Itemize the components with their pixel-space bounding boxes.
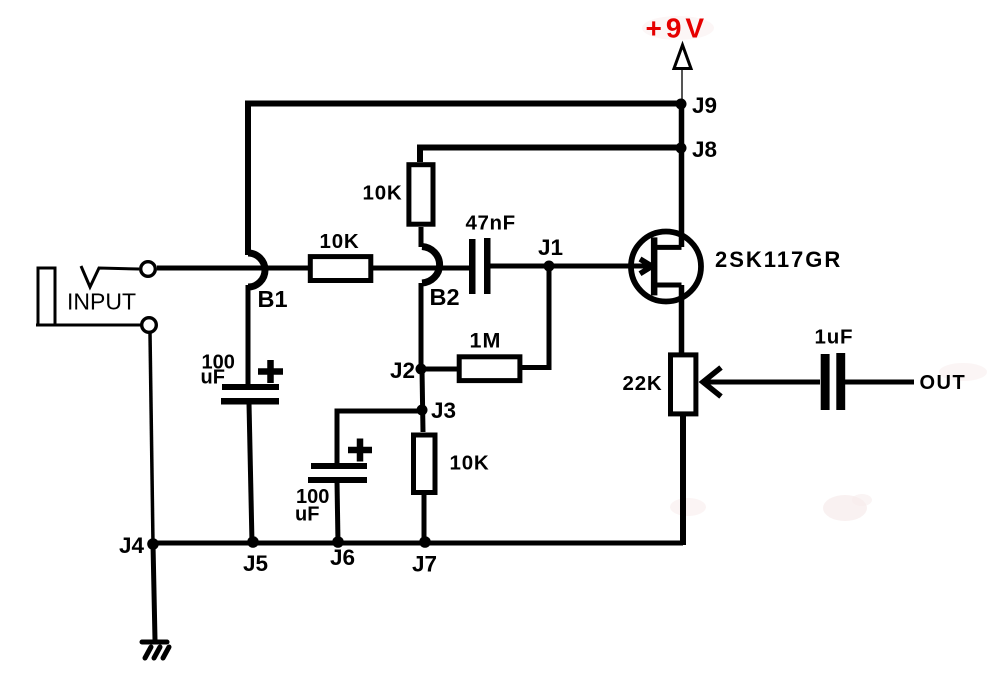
wire B2 vertical 10K bottom lead <box>419 227 424 247</box>
svg-text:J7: J7 <box>412 552 437 577</box>
node J5 <box>247 536 259 548</box>
svg-text:2SK117GR: 2SK117GR <box>715 247 842 272</box>
svg-text:1uF: 1uF <box>815 326 854 349</box>
capacitor 1uF <box>821 353 914 410</box>
wire input jack tip to R 10K <box>157 266 310 271</box>
svg-text:uF: uF <box>201 367 225 389</box>
svg-text:uF: uF <box>295 504 319 526</box>
node J9 <box>676 99 687 110</box>
wire C 47nF to JFET gate <box>489 264 649 269</box>
wire J2 to J3 to 10K lower <box>422 369 423 432</box>
transistor Q1 2SK117GR JFET <box>631 232 701 302</box>
wire 22K bottom to bottom rail <box>680 416 686 545</box>
node J8 <box>676 143 687 154</box>
svg-text:INPUT: INPUT <box>67 289 136 315</box>
wire C2 bottom to J6 <box>337 481 338 543</box>
svg-text:1M: 1M <box>470 329 502 353</box>
svg-text:B1: B1 <box>258 286 288 312</box>
svg-text:J2: J2 <box>390 358 415 383</box>
resistor 10K top vertical <box>409 165 433 225</box>
wire bottom ground rail J4 to 22K <box>151 541 683 546</box>
svg-text:J9: J9 <box>692 93 717 118</box>
svg-text:OUT: OUT <box>920 372 967 394</box>
svg-text:J4: J4 <box>119 533 145 558</box>
svg-text:47nF: 47nF <box>466 212 516 235</box>
resistor 1M <box>459 357 520 381</box>
node J3 <box>417 405 428 416</box>
node J1 <box>544 261 555 272</box>
svg-text:10K: 10K <box>320 230 360 253</box>
node J7 <box>419 536 431 548</box>
input jack tip contact V <box>81 266 139 287</box>
svg-text:J6: J6 <box>330 545 355 570</box>
capacitor 47nF <box>469 238 491 294</box>
wire vertical drain column J9 to JFET <box>679 103 685 247</box>
input jack tip terminal circle <box>141 262 156 277</box>
wire B2 below hop to J2 <box>419 283 424 370</box>
power +9V arrow <box>674 45 691 104</box>
input jack sleeve terminal circle <box>142 318 157 333</box>
wire jack sleeve to J4 <box>150 333 153 544</box>
wire R 10K to C 47nF through B2 <box>372 266 470 271</box>
input jack body <box>38 268 55 325</box>
node J2 <box>416 364 427 375</box>
wire B1 vertical below hop to C1 <box>246 285 251 386</box>
capacitor C1 100uF <box>221 360 283 405</box>
svg-text:10K: 10K <box>450 452 490 475</box>
wire J8 rail from 10K top <box>420 148 682 163</box>
svg-text:B2: B2 <box>430 284 460 310</box>
svg-text:J1: J1 <box>538 235 563 260</box>
wire C1 bottom to J5 <box>249 403 252 543</box>
resistor 10K lower vertical <box>414 435 436 493</box>
wire J4 down to ground <box>153 544 155 640</box>
resistor 10K horizontal <box>310 257 371 281</box>
svg-text:10K: 10K <box>363 182 403 205</box>
svg-text:J3: J3 <box>431 398 456 423</box>
svg-text:J8: J8 <box>692 137 717 162</box>
svg-text:J5: J5 <box>243 551 268 576</box>
potentiometer 22K <box>671 355 821 414</box>
node J4 <box>147 538 159 550</box>
ground <box>142 642 169 658</box>
hop B2 <box>422 247 440 284</box>
input jack sleeve line <box>36 324 141 327</box>
wire J3 to C2 top <box>337 411 422 464</box>
hop B1 <box>248 253 265 287</box>
wire J1 down to 1M right lead <box>522 266 549 368</box>
capacitor C2 100uF <box>308 439 372 484</box>
wire 10K lower bottom to J7 <box>422 495 427 543</box>
node J6 <box>332 536 344 548</box>
svg-text:+9V: +9V <box>646 13 709 44</box>
wire JFET source to 22K <box>679 285 685 355</box>
svg-text:22K: 22K <box>623 372 663 395</box>
wire top supply rail to J9 <box>248 104 682 256</box>
wire 1M left lead to J2 <box>421 367 457 372</box>
